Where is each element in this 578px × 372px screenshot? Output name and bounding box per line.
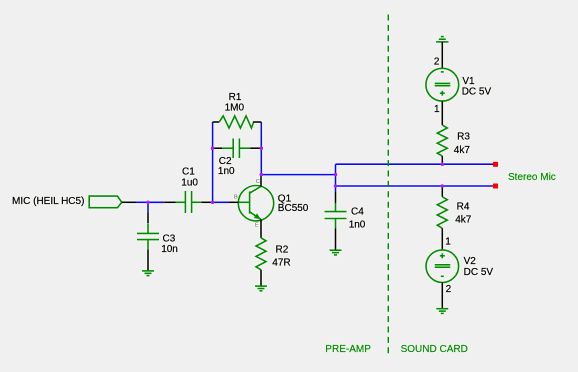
- connector P1 MIC (HEIL HC5): [12, 196, 136, 208]
- transistor Q1: [229, 175, 309, 238]
- wire node A down to C3: [147, 202, 149, 212]
- wire left feedback vertical: [212, 122, 214, 202]
- svg-text:R3: R3: [457, 132, 470, 143]
- capacitor C4: [325, 186, 366, 250]
- svg-text:MIC (HEIL HC5): MIC (HEIL HC5): [12, 196, 84, 207]
- svg-text:1: 1: [445, 236, 451, 247]
- node collector junction: [260, 173, 264, 177]
- svg-text:R1: R1: [229, 92, 242, 103]
- svg-text:1n0: 1n0: [349, 219, 366, 230]
- svg-text:10n: 10n: [161, 244, 178, 255]
- terminal top red: [493, 162, 498, 167]
- boundary dashed line: [387, 15, 389, 358]
- svg-text:C1: C1: [182, 167, 195, 178]
- svg-text:V2: V2: [464, 256, 477, 267]
- node C4 top junction: [334, 173, 338, 177]
- node C2 left junction: [211, 146, 215, 150]
- terminal bottom red: [493, 184, 498, 189]
- ground below V2: [436, 309, 448, 314]
- svg-text:V1: V1: [462, 76, 475, 87]
- node C2 right junction: [260, 146, 264, 150]
- svg-text:1u0: 1u0: [181, 178, 198, 189]
- svg-text:C4: C4: [351, 207, 364, 218]
- capacitor C1: [164, 167, 212, 213]
- svg-text:R4: R4: [457, 202, 470, 213]
- svg-text:C: C: [256, 179, 260, 185]
- ground below R2: [255, 286, 267, 291]
- resistor R1: [213, 92, 262, 128]
- node R4 junction: [441, 184, 445, 188]
- wire bottom output: [336, 185, 494, 187]
- wire C4 column vertical: [335, 164, 337, 186]
- svg-text:DC 5V: DC 5V: [462, 87, 492, 98]
- ground below C4: [330, 250, 342, 255]
- svg-text:E: E: [255, 223, 259, 229]
- svg-text:SOUND CARD: SOUND CARD: [401, 344, 468, 355]
- resistor R2: [256, 238, 291, 286]
- resistor R3: [437, 125, 470, 164]
- node C4 bottom junction: [334, 184, 338, 188]
- capacitor C3: [137, 212, 178, 270]
- node R3 junction: [441, 162, 445, 166]
- node base junction: [211, 201, 215, 205]
- svg-text:1M0: 1M0: [225, 103, 245, 114]
- svg-text:4k7: 4k7: [455, 215, 472, 226]
- svg-text:PRE-AMP: PRE-AMP: [325, 344, 371, 355]
- resistor R4: [437, 186, 471, 250]
- svg-text:R2: R2: [276, 245, 289, 256]
- svg-text:2: 2: [446, 284, 452, 295]
- svg-text:C3: C3: [163, 234, 176, 245]
- node A junction: [146, 201, 150, 205]
- wire top output: [336, 163, 494, 165]
- svg-text:1n0: 1n0: [218, 166, 235, 177]
- svg-text:BC550: BC550: [278, 203, 309, 214]
- wire base node to Q1 base: [213, 201, 229, 203]
- capacitor C2: [213, 139, 262, 178]
- svg-text:DC 5V: DC 5V: [464, 267, 494, 278]
- svg-text:B: B: [234, 195, 238, 201]
- wire right feedback vertical: [260, 122, 262, 175]
- svg-text:47R: 47R: [272, 258, 290, 269]
- ground below C3: [142, 271, 154, 276]
- voltage source V1: [426, 42, 492, 125]
- svg-text:2: 2: [434, 56, 440, 67]
- svg-text:4k7: 4k7: [454, 145, 471, 156]
- wire node A to C1: [148, 201, 164, 203]
- svg-text:1: 1: [434, 104, 440, 115]
- ground above V1: [436, 37, 448, 42]
- wire collector to C4 column: [261, 174, 335, 176]
- wire mic to node A: [136, 201, 148, 203]
- svg-text:Stereo Mic: Stereo Mic: [508, 172, 556, 183]
- voltage source V2: [426, 236, 493, 308]
